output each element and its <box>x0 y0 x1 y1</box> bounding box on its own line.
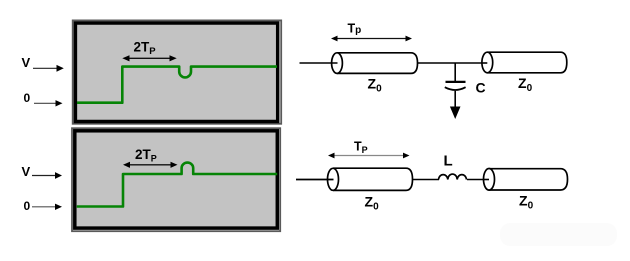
oscilloscope panel 2 (bottom scope display frame) <box>72 128 280 231</box>
arrow V level (panel 2) <box>32 172 62 179</box>
arrow 0 level (panel 1) <box>34 100 63 106</box>
transmission line TL1 (top-left cylinder) <box>332 53 418 74</box>
wire input lead (bottom circuit) <box>296 179 334 181</box>
inductor L (series coil) <box>439 174 467 179</box>
trace TDR waveform 2 (step with upward bump) <box>77 163 277 207</box>
wire junction between TL1 and TL2 <box>418 62 488 64</box>
wire inductor to TL4 <box>467 179 490 181</box>
svg-text:V: V <box>22 55 31 70</box>
capacitor C bottom curved plate <box>445 87 466 90</box>
faint watermark box <box>500 223 617 246</box>
dimension arrow 2Tp (panel 1) <box>122 55 176 61</box>
transmission line TL2 (top-right cylinder) <box>482 52 567 73</box>
svg-text:C: C <box>476 80 486 96</box>
oscilloscope panel 1 (top scope display frame) <box>73 20 282 123</box>
svg-text:L: L <box>444 153 453 170</box>
svg-text:V: V <box>22 164 31 179</box>
transmission line TL3 (bottom-left cylinder) <box>328 168 413 190</box>
svg-text:0: 0 <box>24 199 31 213</box>
capacitor C top plate <box>446 81 466 83</box>
wire capacitor to ground arrow <box>454 91 456 107</box>
transmission line TL4 (bottom-right cylinder) <box>484 169 568 191</box>
arrow V level (panel 1) <box>33 65 64 72</box>
trace TDR waveform 1 (step with downward dip) <box>77 67 277 103</box>
dimension arrow Tp (top circuit) <box>331 36 412 42</box>
wire TL3 to inductor <box>413 179 440 181</box>
arrow 0 level (panel 2) <box>32 204 62 210</box>
dimension arrow Tp (bottom circuit) <box>328 153 410 159</box>
wire input lead (top circuit) <box>300 62 338 64</box>
capacitor C stem from node <box>454 63 456 81</box>
dimension arrow 2Tp (panel 2) <box>123 162 178 168</box>
svg-text:0: 0 <box>24 91 31 105</box>
ground arrow (shunt to ground) <box>450 107 461 120</box>
